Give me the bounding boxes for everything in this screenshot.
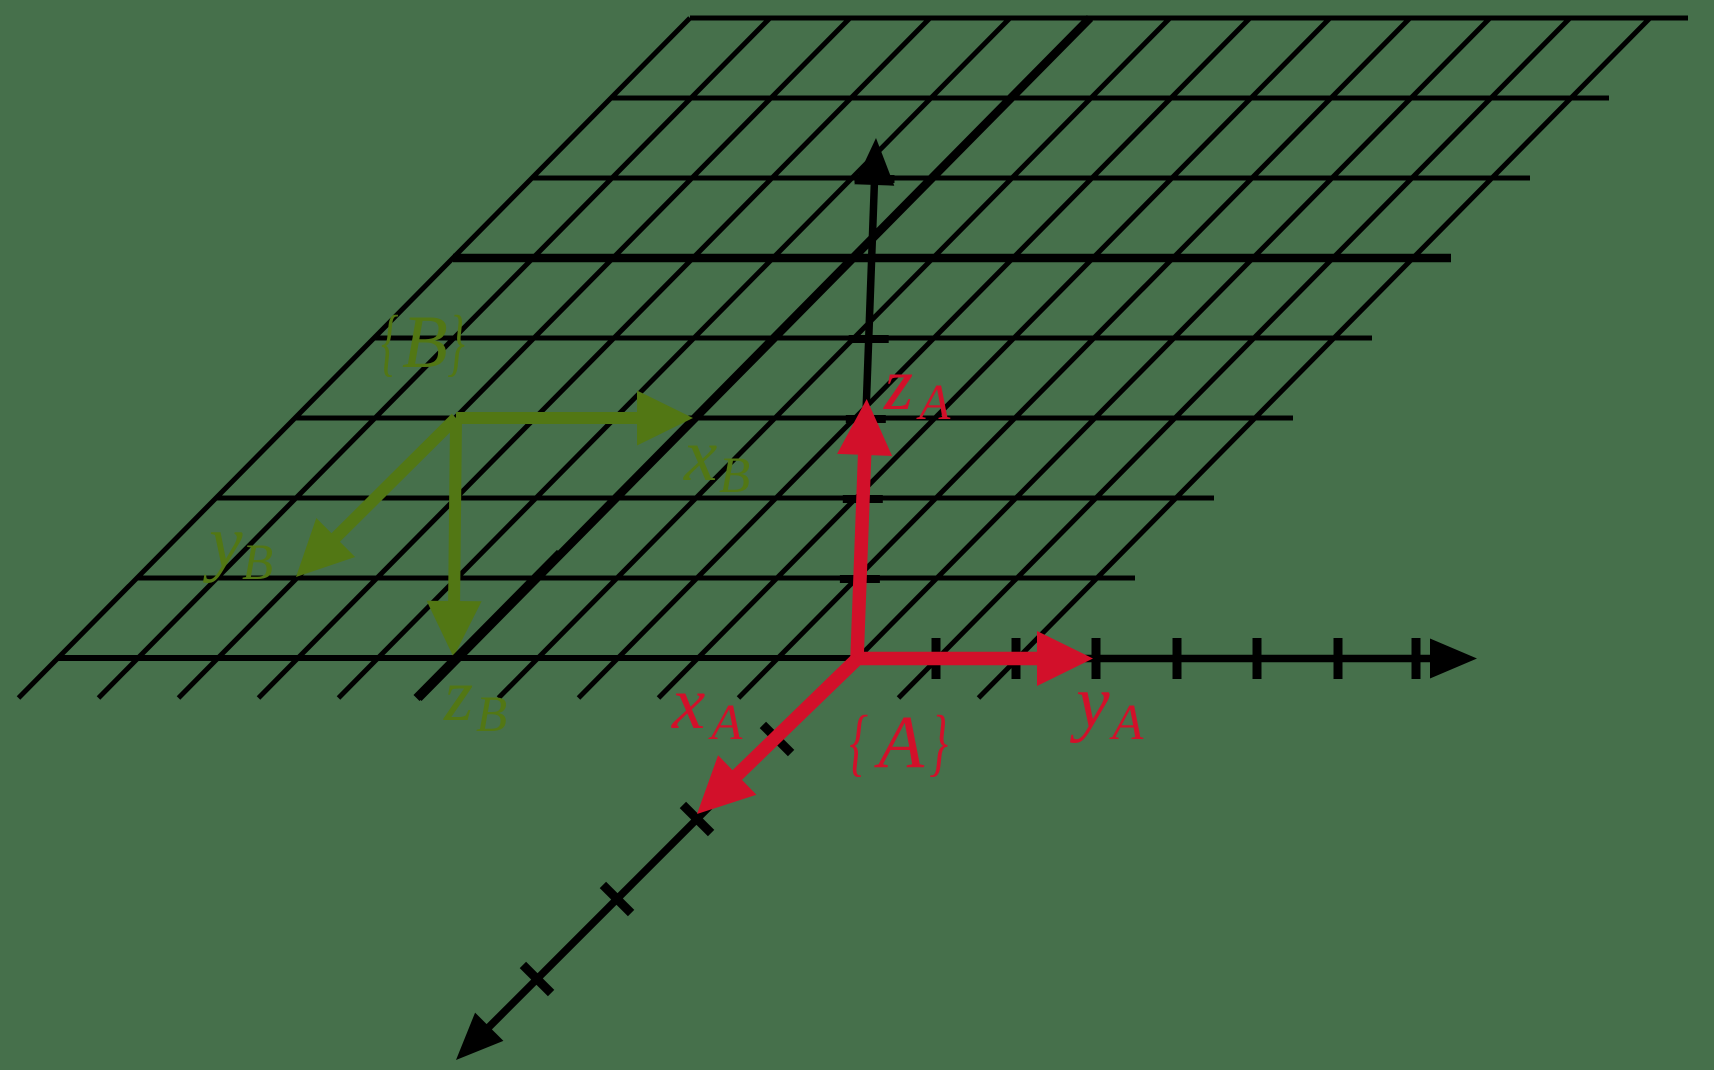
wire grid diagonal k10 bbox=[819, 18, 1491, 698]
tick x-axis 2 bbox=[683, 805, 711, 833]
tick z-axis y=579 bbox=[840, 575, 880, 583]
wire grid diagonal k2 bbox=[179, 18, 851, 698]
wire grid horizontal row8 bbox=[690, 16, 1688, 21]
svg-text:x: x bbox=[671, 662, 705, 745]
wire grid diagonal k4 bbox=[339, 18, 1011, 698]
wire grid diagonal k12 bbox=[979, 18, 1651, 698]
wire grid horizontal row0 baseline bbox=[58, 655, 860, 661]
green arrow y_B bbox=[334, 418, 456, 539]
tick x-axis 1 bbox=[763, 725, 791, 753]
tick y-axis x=936 bbox=[932, 638, 941, 679]
svg-text:z: z bbox=[883, 343, 913, 426]
wire grid diagonal k7 bbox=[579, 18, 1251, 698]
wire grid horizontal row2 bbox=[216, 496, 1214, 501]
wire grid horizontal row7 bbox=[611, 96, 1609, 101]
black z axis with arrowhead bbox=[857, 183, 874, 659]
wire grid horizontal row1 bbox=[137, 576, 1135, 581]
svg-text:{: { bbox=[849, 701, 868, 784]
tick x-axis 3 bbox=[603, 885, 631, 913]
wire grid horizontal row4 bbox=[374, 336, 1372, 341]
tick z-axis y=339 bbox=[849, 335, 889, 343]
green arrow z_B bbox=[454, 418, 456, 603]
red arrow x_A bbox=[736, 659, 857, 776]
black y axis with arrowhead bbox=[857, 655, 1432, 663]
wire grid diagonal k0 bbox=[19, 18, 691, 698]
svg-text:y: y bbox=[1069, 661, 1110, 744]
svg-text:}: } bbox=[929, 701, 948, 784]
wire grid diagonal k5 thick bbox=[419, 18, 1091, 698]
wire thick diagonal overlay near z_B bbox=[417, 553, 561, 698]
wire grid diagonal k6 bbox=[499, 18, 1171, 698]
tick z-axis y=499 bbox=[843, 495, 883, 503]
tick y-axis x=1016 bbox=[1012, 638, 1021, 679]
svg-text:A: A bbox=[873, 701, 925, 784]
svg-text:A: A bbox=[1109, 695, 1144, 751]
tick y-axis x=1338 bbox=[1334, 638, 1343, 679]
svg-text:B: B bbox=[476, 687, 507, 743]
svg-text:z: z bbox=[443, 654, 473, 737]
svg-text:A: A bbox=[916, 375, 951, 431]
wire grid diagonal k3 bbox=[259, 18, 931, 698]
red arrow z_A bbox=[857, 453, 865, 659]
wire grid diagonal k11 bbox=[899, 18, 1571, 698]
green arrow x_B bbox=[456, 412, 639, 424]
wire grid diagonal k9 bbox=[739, 18, 1411, 698]
svg-text:{: { bbox=[381, 301, 398, 384]
svg-text:y: y bbox=[202, 501, 243, 584]
tick y-axis x=1096 bbox=[1092, 638, 1101, 679]
black x axis with arrowhead bbox=[488, 659, 857, 1028]
tick z-axis y=179 bbox=[855, 175, 895, 183]
red arrow y_A bbox=[857, 652, 1039, 666]
tick y-axis x=1257 bbox=[1253, 638, 1262, 679]
svg-text:B: B bbox=[719, 448, 750, 504]
wire grid diagonal k1 bbox=[99, 18, 771, 698]
svg-text:B: B bbox=[242, 535, 273, 591]
tick x-axis 4 bbox=[523, 965, 551, 993]
wire grid diagonal k8 bbox=[659, 18, 1331, 698]
wire grid horizontal row3 bbox=[295, 416, 1293, 421]
tick y-axis x=1416 bbox=[1412, 638, 1421, 679]
svg-text:}: } bbox=[447, 301, 464, 384]
svg-text:A: A bbox=[708, 695, 743, 751]
tick y-axis x=1177 bbox=[1173, 638, 1182, 679]
wire grid horizontal row6 bbox=[532, 176, 1530, 181]
tick z-axis y=419 bbox=[846, 415, 886, 423]
svg-text:B: B bbox=[402, 301, 448, 384]
wire grid horizontal row5 thick bbox=[453, 254, 1451, 263]
svg-text:x: x bbox=[683, 414, 717, 497]
